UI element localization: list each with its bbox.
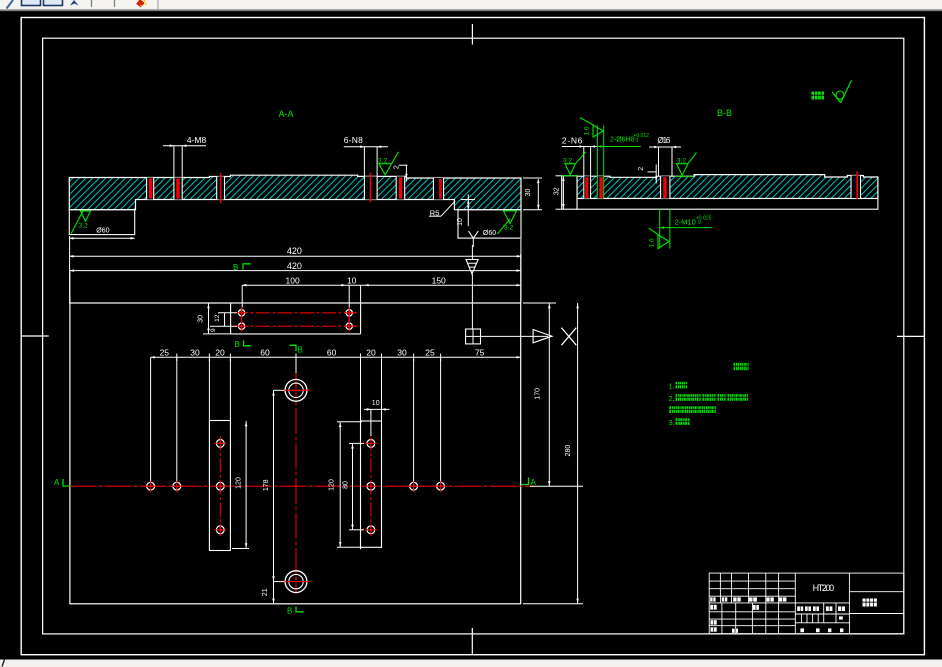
tech req line 1 <box>669 381 688 390</box>
plan view outline <box>70 303 521 604</box>
svg-text:120: 120 <box>329 479 336 491</box>
A-A left boss roughness 3.2 <box>71 211 91 234</box>
dimension 6-N8 <box>344 135 388 176</box>
svg-text:A: A <box>54 478 60 487</box>
chain dimension row 25/30/20/60/60/20/30/25/75 <box>151 347 521 549</box>
svg-text:10: 10 <box>372 400 380 407</box>
svg-text:20: 20 <box>215 347 225 357</box>
datum leader arrow right <box>481 330 553 343</box>
svg-text:A: A <box>531 478 537 487</box>
dimension 120 left group <box>232 421 249 549</box>
frame centre mark right <box>897 335 924 337</box>
svg-text:2-M10: 2-M10 <box>675 218 696 227</box>
svg-text:B: B <box>298 346 303 355</box>
tech req line 3 <box>669 406 716 413</box>
dimension 10 right group <box>364 400 390 436</box>
B-B hole phi6H8 <box>597 126 603 199</box>
dimension 9 slot <box>210 328 217 332</box>
left group hole middle <box>216 482 224 490</box>
A-A step dimension 2 <box>393 165 407 181</box>
frame centre mark bottom <box>471 628 473 655</box>
dimension 420 (A-A length) <box>69 236 521 303</box>
svg-text:6-N8: 6-N8 <box>344 135 363 145</box>
B-B right end hole <box>851 172 861 199</box>
svg-text:HT200: HT200 <box>813 583 835 593</box>
tech req line 4 <box>669 418 690 427</box>
frame centre mark left <box>22 335 49 337</box>
dimension 2-N6 <box>562 136 597 148</box>
svg-text:120: 120 <box>236 477 243 489</box>
svg-text:30: 30 <box>525 189 532 197</box>
svg-text:3.2: 3.2 <box>504 224 514 231</box>
svg-text:100: 100 <box>286 276 300 286</box>
A-A right boss phi60 <box>458 210 521 247</box>
svg-text:3.2: 3.2 <box>563 158 573 165</box>
svg-text:B-B: B-B <box>717 108 732 118</box>
right hole-group outline <box>361 421 382 547</box>
tech req line 2 <box>669 394 749 403</box>
svg-text:178: 178 <box>263 479 270 491</box>
svg-text:30: 30 <box>197 315 204 323</box>
section mark B below slot <box>235 340 252 349</box>
title block part name <box>863 599 877 607</box>
A-A through hole #1 <box>217 173 225 203</box>
svg-text:75: 75 <box>475 347 485 357</box>
svg-text:170: 170 <box>535 388 542 400</box>
dimension 2-M10 below <box>660 209 712 248</box>
right group hole middle <box>367 482 375 490</box>
A-A left boss phi60 <box>69 210 134 240</box>
svg-text:B: B <box>233 263 238 272</box>
svg-text:1.6: 1.6 <box>583 126 590 135</box>
leader R5 <box>429 201 455 218</box>
main vertical centre line <box>295 373 297 594</box>
roughness 3.2 on B-B left foot <box>562 152 586 176</box>
slot hole bottom-right <box>346 323 352 329</box>
right group hole bottom <box>367 526 375 534</box>
svg-text:25: 25 <box>425 347 435 357</box>
svg-text:60: 60 <box>260 347 270 357</box>
dimension 80 right group <box>343 443 365 529</box>
B-B step dimension 2 <box>638 165 658 184</box>
left group centre line <box>219 437 221 537</box>
svg-text:30: 30 <box>397 347 407 357</box>
svg-text:Ø60: Ø60 <box>483 230 496 237</box>
svg-text:420: 420 <box>287 246 302 256</box>
svg-text:B: B <box>287 607 292 616</box>
dimension 12 slot <box>210 313 237 326</box>
svg-text:25: 25 <box>160 347 170 357</box>
svg-text:2-N6: 2-N6 <box>562 136 583 146</box>
plan slot outline <box>231 303 361 334</box>
svg-text:Ø16: Ø16 <box>658 136 671 145</box>
svg-text:2-Ø6H8: 2-Ø6H8 <box>610 137 635 144</box>
corner roughness check symbol <box>832 80 851 103</box>
section mark B in chain row <box>289 345 303 354</box>
left group hole bottom <box>216 526 224 534</box>
svg-text:10: 10 <box>457 218 464 226</box>
svg-text:30: 30 <box>190 347 200 357</box>
svg-text:2: 2 <box>393 165 400 169</box>
B-B section body hatch <box>577 175 878 199</box>
status bar <box>0 660 942 667</box>
svg-text:Ø60: Ø60 <box>96 228 109 235</box>
right group hole top <box>367 440 375 448</box>
A-A right boss roughness 3.2 <box>497 211 516 234</box>
A-A section body hatch <box>69 175 521 210</box>
svg-text:150: 150 <box>432 276 446 286</box>
dimension 4-M8 <box>163 135 206 177</box>
slot centre lines red <box>234 313 357 326</box>
svg-text:280: 280 <box>565 445 572 457</box>
toolbar icon: colorful sweep <box>136 0 147 8</box>
svg-text:3.2: 3.2 <box>378 158 388 165</box>
svg-text:20: 20 <box>366 347 376 357</box>
svg-text:2.: 2. <box>669 394 675 403</box>
section mark A left <box>54 478 70 487</box>
svg-text:1.: 1. <box>669 381 675 390</box>
svg-text:0: 0 <box>698 220 701 226</box>
datum triangle on 420 dim <box>466 245 478 329</box>
section mark B bottom <box>287 607 304 616</box>
big bore top <box>283 379 310 401</box>
main horizontal centre line <box>70 485 533 487</box>
toolbar separator 2 <box>114 0 116 7</box>
A-A through hole N8 <box>364 173 377 203</box>
svg-text:A-A: A-A <box>278 109 293 119</box>
dimension 280 <box>523 303 583 604</box>
roughness 3.2 right of phi16 <box>674 153 696 177</box>
dimension 32 (B-B thickness) <box>553 176 564 209</box>
slot hole top-left <box>238 310 244 316</box>
frame centre mark top <box>471 24 473 45</box>
title block <box>709 573 904 634</box>
toolbar icon: star <box>70 0 79 6</box>
B-B bottom plate <box>577 199 878 210</box>
holes on centre line right <box>410 482 418 490</box>
datum target square <box>466 329 481 344</box>
svg-text:0: 0 <box>636 138 639 144</box>
svg-text:4-M8: 4-M8 <box>187 135 207 145</box>
svg-text:80: 80 <box>343 481 350 489</box>
A-A tapped hole M8 #2 <box>174 178 182 200</box>
svg-text:21: 21 <box>262 588 269 596</box>
svg-text:60: 60 <box>327 347 337 357</box>
technical requirements title <box>734 363 749 370</box>
svg-text:B: B <box>235 340 240 349</box>
dimension phi16 <box>649 136 681 176</box>
X mark <box>561 328 576 346</box>
left hole-group outline <box>209 421 230 551</box>
dimension 30 slot <box>197 303 232 334</box>
section mark A right <box>522 478 537 487</box>
dimension 420 plan <box>70 254 521 303</box>
svg-text:32: 32 <box>553 187 560 195</box>
dimension 10 (foot height) <box>457 195 475 227</box>
dimension 170 <box>523 303 583 486</box>
slot hole bottom-left <box>238 323 244 329</box>
slot column red connectors <box>242 308 350 331</box>
big bore bottom <box>283 571 310 593</box>
section mark B top <box>233 263 251 272</box>
svg-text:9: 9 <box>210 328 217 332</box>
right group centre line <box>370 437 372 537</box>
toolbar strip <box>0 0 942 11</box>
dimension 2-phi6H8 green <box>597 133 649 148</box>
B-B left foot block <box>562 176 577 209</box>
left group hole top <box>216 440 224 448</box>
B-B hole M10/phi16 <box>661 176 670 198</box>
A-A tapped hole #3 <box>396 176 405 199</box>
toolbar icon: line tool slash <box>7 0 14 9</box>
corner note qiyu (rest) <box>812 92 825 100</box>
roughness 1.6 below (rotated) <box>649 228 670 248</box>
svg-text:3.: 3. <box>669 418 675 427</box>
toolbar icon: rect button 1 <box>22 0 41 6</box>
dimension row 100/10/150 <box>242 276 521 308</box>
toolbar icon: rect button 2 <box>44 0 63 6</box>
svg-text:2: 2 <box>638 167 645 171</box>
dimension 30 (A-A thickness) <box>523 178 542 210</box>
svg-text:1.6: 1.6 <box>649 238 656 247</box>
holes on centre line far left <box>147 482 155 490</box>
B-B hole N6 <box>584 147 591 199</box>
title block small texts <box>710 597 845 632</box>
svg-text:3.2: 3.2 <box>79 222 89 229</box>
svg-text:420: 420 <box>287 261 302 271</box>
A-A tapped hole M8 #1 <box>147 178 154 200</box>
dimension 178 <box>263 390 285 581</box>
toolbar separator 1 <box>91 0 93 7</box>
roughness 1.6 (top, rotated) <box>580 118 603 138</box>
A-A top roughness 3.2 <box>378 152 399 175</box>
dimension 21 <box>262 582 275 604</box>
slot hole top-right <box>346 310 352 316</box>
svg-text:3.2: 3.2 <box>677 158 687 165</box>
svg-text:10: 10 <box>347 276 357 286</box>
A-A tapped hole #4 <box>433 178 443 200</box>
svg-text:12: 12 <box>214 314 221 322</box>
dimension 120 right group <box>329 422 363 548</box>
